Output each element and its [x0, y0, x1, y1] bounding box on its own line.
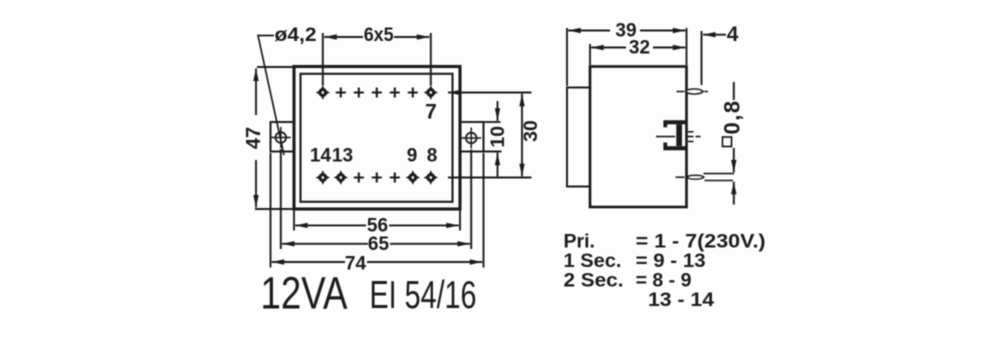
pin stub upper right: [688, 131, 694, 133]
extension line tab bottom: [485, 151, 502, 153]
dimension line 56 right: [389, 224, 459, 226]
dimension line 74 right: [367, 261, 482, 263]
extension line 65 right (hole centre): [470, 150, 472, 250]
dimension line 30: [521, 95, 523, 175]
svg-text:4: 4: [727, 23, 739, 46]
dimension line 47 lower: [255, 160, 257, 208]
svg-text:47: 47: [243, 127, 265, 149]
dimension line 32 left: [591, 47, 626, 49]
extension line tab top: [485, 121, 501, 123]
svg-text:7: 7: [425, 101, 437, 124]
extension line 74 right (tab edge): [483, 153, 485, 268]
pin 5 solder point (plus mark): [390, 88, 400, 98]
leader line of dia 4,2: [258, 36, 284, 156]
pin 2 solder point (plus mark): [336, 88, 346, 98]
left mounting tab: [271, 122, 295, 152]
dimension line 10 lower arrow: [497, 153, 499, 178]
dimension line 39 right: [640, 30, 685, 32]
pin 3 solder point (plus mark): [354, 88, 364, 98]
pin 13 (bottom row, circled): [334, 170, 348, 184]
dimension line 47 upper: [255, 69, 257, 116]
dimension line 6x5 right: [394, 36, 429, 38]
top pin lens: [686, 89, 704, 94]
pin stub centre right: [688, 136, 701, 138]
pin stub lower right: [688, 141, 694, 143]
extension line 56 left: [293, 210, 295, 231]
svg-text:8: 8: [427, 146, 438, 167]
side view body outline: [590, 67, 687, 208]
svg-text:6x5: 6x5: [364, 25, 394, 46]
dimension text square 0,8: [720, 99, 745, 146]
dimension 30 upper arrow: [521, 94, 523, 108]
svg-text:12VA: 12VA: [261, 268, 348, 319]
pin bracket centre bar: [676, 124, 682, 146]
dimension 0,8 upper arrow: [733, 148, 735, 172]
bottom pin lens: [687, 175, 704, 179]
svg-text:14: 14: [310, 146, 332, 167]
side view mounting flange: [567, 88, 590, 187]
pin 6 solder point (plus mark): [408, 88, 418, 98]
dimension line 10 upper arrow: [497, 101, 499, 121]
dimension line 4: [703, 34, 726, 36]
pin 7 (top row, circled): [424, 85, 438, 99]
pin centre line right (top pin): [705, 91, 709, 93]
pin bracket lower arm: [663, 143, 685, 151]
bottom row solder point (plus mark): [390, 173, 400, 183]
svg-text:ø4,2: ø4,2: [275, 25, 317, 46]
svg-text:65: 65: [368, 234, 390, 255]
svg-text:13: 13: [332, 146, 353, 167]
svg-text:32: 32: [629, 38, 650, 59]
right mounting hole: [461, 128, 481, 149]
left mounting hole: [271, 127, 291, 148]
dimension line 0,8 upper segment: [733, 82, 735, 100]
dimension line 74 left: [272, 261, 345, 263]
extension line flange left: [566, 28, 568, 86]
extension line pin 1: [322, 33, 324, 86]
svg-text:74: 74: [345, 253, 367, 274]
extension line bottom pin bottom face: [705, 180, 734, 182]
extension line body bottom left: [255, 208, 294, 210]
extension line 65 left (hole centre): [280, 149, 282, 249]
svg-text:9: 9: [407, 146, 418, 167]
dimension 0,8 lower arrow: [733, 182, 735, 205]
pin 9 (bottom row, circled): [406, 170, 420, 184]
dimension line 32 right: [653, 47, 685, 49]
pin bracket upper arm: [663, 120, 685, 127]
bottom row solder point (plus mark): [354, 173, 364, 183]
dimension 30 lower arrow: [521, 162, 523, 176]
extension line body top left: [257, 66, 294, 68]
svg-text:10: 10: [487, 126, 509, 148]
dimension line 39 left: [568, 30, 610, 32]
svg-text:2 Sec.: 2 Sec.: [564, 270, 624, 292]
extension line body left top: [589, 44, 591, 65]
right mounting tab: [460, 122, 484, 152]
svg-text:0,8: 0,8: [720, 99, 745, 134]
svg-text:EI 54/16: EI 54/16: [370, 274, 477, 317]
pin 8 (bottom row, circled): [424, 170, 438, 184]
extension line bottom pin row: [448, 177, 532, 179]
dimension line 6x5 left: [324, 36, 363, 38]
pin bracket centre line: [656, 136, 675, 138]
bottom row solder point (plus mark): [372, 173, 382, 183]
pin 1 (top row, circled): [316, 85, 330, 99]
svg-text:30: 30: [520, 120, 542, 142]
pin 14 (bottom row, circled): [316, 170, 330, 184]
transformer body outer outline (top view): [294, 67, 460, 210]
svg-text:13 - 14: 13 - 14: [648, 289, 714, 311]
dimension line 56 left: [295, 224, 366, 226]
dimension line 65 right: [390, 243, 470, 245]
pin 4 solder point (plus mark): [372, 88, 382, 98]
extension line pin tip: [701, 31, 703, 85]
extension line top pin row: [448, 92, 532, 94]
extension line 56 right: [459, 210, 461, 231]
pin centre line left (top pin): [677, 91, 685, 93]
transformer body inner outline: [301, 74, 453, 202]
extension line pin 7: [430, 33, 432, 86]
extension line 74 left (tab edge): [270, 153, 272, 268]
extension line bottom pin top face: [704, 173, 735, 175]
dimension line 65 left: [282, 243, 368, 245]
extension line body right top: [686, 28, 688, 65]
pin centre line left (bottom pin): [676, 176, 685, 178]
